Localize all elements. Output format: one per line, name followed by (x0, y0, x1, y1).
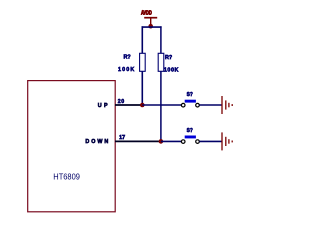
switch S? bottom left terminal (181, 140, 185, 144)
junction dot pin17/R2 (159, 139, 164, 144)
switch S? bottom actuator bar (185, 136, 196, 139)
svg-text:R?: R? (124, 55, 131, 61)
power port AVDD stem (150, 18, 152, 27)
wire top rail (142, 26, 162, 28)
wire left branch vertical (141, 26, 143, 105)
wire switch bottom to ground (199, 140, 221, 142)
svg-text:DOWN: DOWN (85, 139, 108, 145)
switch S? top right terminal (196, 103, 200, 107)
pin 20 UP stub (115, 104, 142, 106)
junction dot at AVDD node (148, 24, 153, 29)
switch S? bottom right terminal (196, 140, 200, 144)
wire DOWN net to switch (161, 140, 182, 142)
svg-text:HT6809: HT6809 (53, 171, 80, 181)
wire UP net to switch (142, 104, 181, 106)
svg-text:20: 20 (118, 99, 125, 105)
svg-text:S?: S? (187, 128, 193, 134)
wire switch top to ground (199, 104, 221, 106)
wire right branch vertical (160, 26, 162, 141)
svg-text:100K: 100K (118, 67, 134, 73)
svg-text:17: 17 (119, 135, 125, 141)
ground symbol top (222, 96, 232, 114)
svg-text:100K: 100K (164, 67, 179, 73)
pin 17 DOWN stub (115, 140, 161, 142)
resistor R? right body (158, 53, 164, 71)
svg-text:R?: R? (165, 55, 172, 61)
svg-text:AVDD: AVDD (141, 10, 152, 16)
ground symbol bottom (222, 132, 232, 150)
power port AVDD bar (144, 17, 157, 19)
svg-text:S?: S? (187, 92, 193, 98)
switch S? top actuator bar (185, 100, 196, 103)
IC U? HT6809 box (28, 81, 116, 212)
junction dot pin20/R1 (140, 103, 145, 108)
resistor R? left body (140, 53, 146, 71)
switch S? top left terminal (181, 103, 185, 107)
